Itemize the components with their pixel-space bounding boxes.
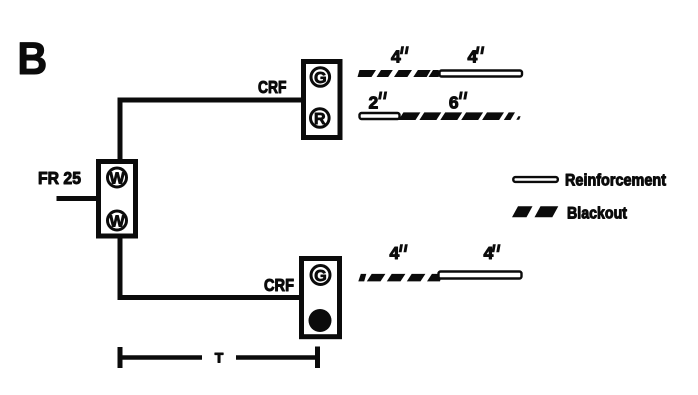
svg-text:R: R — [314, 111, 326, 128]
svg-text:Reinforcement: Reinforcement — [565, 172, 666, 190]
svg-text:4: 4 — [391, 47, 401, 67]
svg-text:CRF: CRF — [264, 275, 294, 295]
svg-text:W: W — [109, 213, 125, 230]
svg-text:4: 4 — [484, 243, 494, 263]
svg-text:4: 4 — [390, 243, 400, 263]
svg-text:6: 6 — [449, 93, 459, 113]
svg-text:4: 4 — [468, 47, 478, 67]
svg-text:Blackout: Blackout — [567, 205, 627, 223]
svg-text:G: G — [314, 268, 326, 285]
svg-text:CRF: CRF — [258, 77, 287, 97]
svg-text:G: G — [314, 70, 326, 87]
svg-text:B: B — [17, 33, 47, 84]
svg-text:W: W — [109, 170, 125, 187]
svg-text:FR 25: FR 25 — [38, 168, 81, 188]
svg-text:2: 2 — [369, 93, 379, 113]
svg-text:T: T — [215, 350, 224, 366]
